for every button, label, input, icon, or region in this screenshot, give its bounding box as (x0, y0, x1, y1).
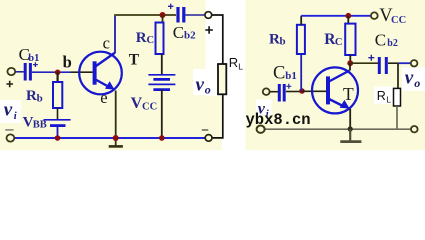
resistor Rb (53, 82, 62, 108)
input terminal + (left) (7, 68, 15, 75)
background right image (246, 0, 425, 150)
svg-text:L: L (386, 94, 391, 104)
wire Cb1 to base node (32, 71, 71, 73)
stub rail to RC (162, 15, 164, 23)
svg-text:CC: CC (142, 101, 157, 112)
wire emitter down to rail (115, 91, 117, 146)
emitter line right (328, 99, 344, 107)
input terminal bottom right (257, 126, 265, 133)
svg-text:R: R (269, 31, 280, 47)
node base junction (55, 70, 61, 76)
base bar right (326, 76, 330, 104)
svg-text:v: v (405, 68, 414, 89)
capacitor Cb1 right (278, 84, 281, 102)
wire terminal to Cb1 (270, 91, 280, 93)
wire corner down to RL right (397, 63, 399, 88)
svg-text:V: V (131, 95, 143, 112)
svg-text:b: b (280, 36, 286, 48)
svg-text:e: e (100, 88, 107, 107)
minus sign input left (5, 129, 13, 131)
svg-text:C: C (147, 35, 155, 46)
wire input to Cb1 (15, 71, 24, 73)
wire node down to Rb (56, 72, 58, 82)
collector line (95, 53, 115, 67)
stub Rb to top rail right (300, 16, 302, 25)
resistor RL right (394, 88, 401, 106)
plus mark Cb2 right (368, 55, 374, 61)
ground stub right (349, 129, 351, 140)
node emitter rail junction right (348, 126, 353, 131)
wire collector up right (349, 63, 351, 70)
base bar (93, 61, 97, 84)
output terminal right (411, 60, 418, 66)
transistor T (left) (79, 52, 122, 95)
transistor T (right) (312, 67, 358, 113)
capacitor Cb1 (24, 63, 27, 81)
emitter line (95, 79, 110, 88)
svg-text:b: b (63, 53, 72, 72)
plus mark Cb1 right (286, 84, 291, 89)
emitter arrowhead right (340, 100, 350, 109)
node RC top junction (160, 12, 166, 18)
resistor RC (156, 23, 164, 55)
node emitter rail junction (113, 135, 119, 141)
wire Cb2 to output corner right (388, 62, 399, 64)
svg-text:b2: b2 (184, 30, 196, 42)
wire VCC to bottom rail (161, 90, 163, 138)
collector line right (328, 71, 350, 83)
wire RL down to bottom rail right (396, 106, 398, 129)
stub rail to RC right (347, 16, 349, 24)
svg-text:C: C (173, 23, 184, 42)
wire node to Cb2 right (350, 62, 378, 64)
top rail right circuit (301, 15, 371, 17)
battery VBB (44, 119, 71, 121)
svg-text:ybx8.cn: ybx8.cn (246, 111, 311, 129)
svg-text:R: R (26, 88, 37, 104)
svg-text:v: v (196, 74, 205, 95)
svg-text:b1: b1 (285, 70, 297, 82)
output terminal top (left) (205, 12, 212, 19)
plus mark Cb2 (168, 4, 173, 9)
svg-text:c: c (103, 33, 110, 52)
wire terminal to RL corner (212, 15, 223, 64)
bottom rail left circuit (14, 137, 205, 139)
output terminal bottom right (411, 126, 418, 132)
svg-text:L: L (238, 61, 243, 71)
svg-text:R: R (229, 55, 238, 70)
wire collector up (114, 15, 116, 54)
resistor Rb right (297, 25, 305, 54)
svg-text:b1: b1 (28, 53, 39, 64)
svg-text:C: C (375, 30, 386, 49)
node base junction right (299, 88, 305, 94)
background white strip (206, 0, 246, 150)
node RC top junction right (345, 13, 351, 19)
background left image (0, 0, 206, 150)
white label box left vi (0, 100, 21, 123)
white label box right RL (374, 87, 393, 105)
wire corner to output terminal right (399, 62, 411, 64)
ground bar right (340, 140, 361, 143)
svg-text:C: C (273, 63, 285, 83)
svg-text:b2: b2 (387, 38, 398, 49)
wire RC to VCC (161, 54, 163, 75)
svg-text:R: R (136, 30, 147, 46)
svg-text:C: C (335, 37, 343, 48)
node collector junction right (347, 60, 353, 66)
wire Rb down to node right (300, 54, 302, 91)
white label box right vi (256, 100, 272, 116)
plus sign output left (205, 26, 213, 34)
wire RC down to collector node (349, 55, 351, 63)
resistor RC right (345, 24, 355, 55)
svg-text:T: T (343, 84, 354, 104)
ground bar left (109, 145, 123, 148)
wire RL to bottom corner (212, 94, 223, 138)
emitter arrowhead (105, 81, 115, 89)
wire node to base right (302, 90, 326, 92)
input terminal bottom (left) (6, 134, 14, 141)
wire VBB to bottom rail (57, 126, 59, 138)
svg-text:BB: BB (33, 120, 47, 131)
bottom rail right circuit (264, 128, 411, 130)
terminal VCC right (371, 12, 378, 19)
node VCC rail junction (159, 135, 165, 141)
wire Rb to VBB (57, 108, 59, 119)
svg-text:o: o (205, 83, 211, 97)
svg-text:CC: CC (391, 15, 406, 26)
plus mark Cb1 (33, 62, 38, 67)
wire to transistor base (71, 71, 93, 73)
svg-text:i: i (14, 111, 17, 122)
resistor RL (left) (218, 64, 226, 94)
svg-text:v: v (4, 100, 13, 121)
battery VCC (148, 74, 175, 76)
plus sign input left (6, 81, 13, 88)
wire emitter down right (349, 109, 351, 129)
minus sign output left (202, 129, 209, 131)
svg-text:R: R (377, 89, 386, 103)
wire Cb2 to output terminal (186, 14, 206, 16)
output terminal bottom (left) (205, 135, 212, 142)
input terminal (right) (263, 88, 270, 95)
svg-text:b: b (37, 92, 43, 104)
svg-text:T: T (129, 52, 140, 69)
capacitor Cb2 (176, 7, 179, 23)
node VBB rail junction (55, 135, 61, 141)
capacitor Cb2 right (378, 57, 381, 74)
svg-text:o: o (414, 76, 420, 90)
wire Cb1 to base node right (286, 91, 302, 93)
top rail left circuit (114, 14, 176, 16)
white label box left vo (193, 69, 213, 95)
white label box right vo (402, 68, 425, 92)
background cream patch lower-left of strip (206, 96, 222, 150)
